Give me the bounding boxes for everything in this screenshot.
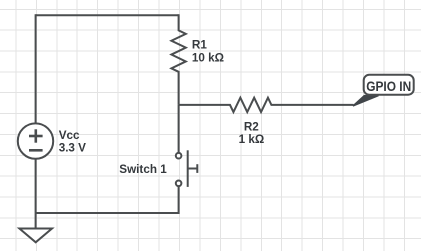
svg-text:R2: R2: [244, 121, 259, 134]
label Vcc: [59, 129, 80, 142]
label Switch 1: [119, 163, 167, 176]
label R1: [192, 39, 207, 52]
resistor R2: [179, 98, 354, 112]
wire left vertical (source to ground): [35, 159, 37, 229]
svg-text:GPIO IN: GPIO IN: [366, 78, 411, 94]
wire left vertical (top to Vcc source): [35, 14, 37, 123]
svg-text:1 kΩ: 1 kΩ: [239, 133, 265, 146]
resistor R1: [171, 14, 185, 105]
svg-text:Vcc: Vcc: [59, 129, 80, 142]
wire top horizontal: [36, 14, 179, 16]
svg-text:R1: R1: [192, 39, 207, 52]
net flag GPIO IN: [353, 75, 414, 106]
svg-text:3.3 V: 3.3 V: [59, 142, 86, 155]
wire R1 bottom to switch: [178, 105, 180, 153]
wire switch bottom: [178, 186, 180, 214]
ground: [19, 229, 52, 243]
value label 10 kOhm: [192, 51, 224, 64]
wire bottom horizontal: [36, 212, 179, 214]
switch S1 (pushbutton): [176, 150, 198, 187]
svg-text:Switch 1: Switch 1: [119, 163, 167, 176]
label R2: [244, 121, 259, 134]
svg-text:10 kΩ: 10 kΩ: [192, 51, 224, 64]
value label 3.3 V: [59, 142, 86, 155]
value label 1 kOhm: [239, 133, 265, 146]
voltage source V1 (Vcc 3.3 V): [18, 123, 53, 158]
